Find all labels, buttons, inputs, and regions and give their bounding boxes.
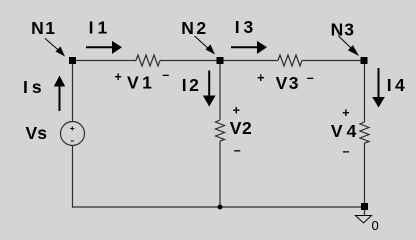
svg-text:N1: N1 (31, 18, 56, 38)
current arrow I3 (231, 41, 267, 54)
resistor V3 (278, 55, 302, 66)
ground stub wire (364, 210, 366, 216)
svg-text:I1: I1 (89, 17, 112, 37)
bottom right node square (361, 203, 368, 210)
wire top rail N1 to resistor V1 (72, 60, 136, 62)
resistor V2 (216, 120, 225, 141)
resistor V1 (136, 55, 160, 66)
svg-text:V3: V3 (276, 73, 300, 93)
svg-text:+: + (233, 104, 240, 118)
svg-text:V2: V2 (230, 118, 252, 138)
wire N2 down to resistor V2 (219, 61, 221, 121)
junction dot at V2 bottom (218, 205, 223, 210)
wire resistor V4 to bottom node (364, 143, 366, 207)
svg-text:V1: V1 (127, 72, 155, 92)
source plus mark (70, 127, 74, 131)
wire N1 down to source Vs (72, 61, 74, 122)
svg-text:I4: I4 (387, 75, 409, 95)
svg-text:+: + (342, 106, 349, 120)
ground symbol (356, 216, 372, 224)
wire source Vs to bottom rail (72, 146, 74, 208)
svg-text:+: + (257, 71, 264, 85)
node N2 square (217, 57, 224, 64)
node N3 square (361, 57, 368, 64)
svg-text:N2: N2 (181, 18, 208, 38)
wire resistor V1 to N2 (160, 60, 220, 62)
wire resistor V3 to N3 (302, 60, 364, 62)
svg-text:V4: V4 (331, 121, 360, 141)
svg-text:I2: I2 (182, 75, 202, 95)
voltage source Vs circle (61, 122, 85, 146)
current arrow I2 (203, 71, 216, 107)
current arrow I1 (86, 41, 122, 54)
svg-text:–: – (307, 71, 314, 85)
svg-text:0: 0 (372, 218, 379, 233)
resistor V4 (360, 122, 369, 143)
svg-text:I3: I3 (235, 17, 258, 37)
svg-text:N3: N3 (331, 19, 355, 39)
node pointer arrow N3 (338, 36, 359, 56)
node pointer arrow N2 (195, 36, 216, 55)
node N1 square (69, 57, 76, 64)
svg-text:–: – (162, 68, 169, 82)
svg-text:+: + (115, 70, 122, 84)
source minus mark (71, 141, 74, 142)
wire bottom rail (72, 206, 364, 208)
svg-text:Is: Is (23, 77, 46, 97)
svg-text:–: – (343, 145, 350, 159)
node pointer arrow N1 (45, 38, 65, 56)
svg-text:–: – (234, 144, 241, 158)
current arrow I4 (372, 68, 385, 108)
wire N3 down to resistor V4 (364, 61, 366, 123)
svg-text:Vs: Vs (26, 123, 48, 143)
wire N2 to resistor V3 (220, 60, 278, 62)
current arrow Is (54, 76, 65, 112)
wire resistor V2 to bottom rail (219, 141, 221, 208)
